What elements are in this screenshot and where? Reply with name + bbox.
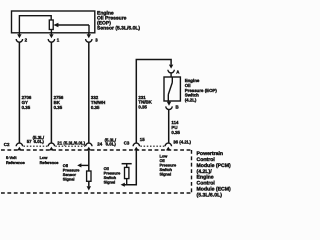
label 5-Volt Reference [6,155,26,165]
wire pin 15 into PCM with arrow [121,150,137,186]
connector pin 24 at PCM [86,143,92,150]
wire cup A to switch box [170,73,172,77]
EOP switch box outline [164,77,180,101]
wire pull-up resistor to signal run [126,179,128,185]
label Oil Pressure Switch Signal [104,166,121,184]
wire 114 PU [168,110,170,144]
connector pin 57 at PCM [16,143,22,150]
label Low Oil Pressure Switch Signal [160,153,177,176]
svg-text:C3: C3 [124,141,130,146]
label 114 PU 0.35 [171,120,180,135]
PCM dashed box top edge [1,149,192,151]
label 2706 GY 0.35 [22,95,32,110]
resistor pull-down in PCM [87,171,91,181]
label 231 TN/BK 0.35 [138,95,152,110]
svg-text:Reference: Reference [6,160,26,165]
svg-text:(4.2L): (4.2L) [185,97,197,102]
svg-text:0.35: 0.35 [138,105,147,110]
svg-text:Signal: Signal [160,172,172,177]
pressure switch symbol [168,77,172,101]
svg-text:15: 15 [140,137,145,142]
connector C3 dotted line [140,145,164,147]
label Oil Pressure Sensor Signal [63,163,80,181]
connector pin 2 of sensor [16,33,27,43]
svg-text:Reference: Reference [40,160,60,165]
svg-text:Signal: Signal [104,180,116,185]
wire 332 TN/WH [88,42,90,143]
svg-text:Sensor (5.3L/6.0L): Sensor (5.3L/6.0L) [97,26,140,32]
PCM dashed box right edge [191,150,193,193]
down arrow end of sensor signal branch [87,186,91,190]
svg-text:21 (5.3L/6.0L): 21 (5.3L/6.0L) [57,141,85,146]
svg-text:B: B [176,104,179,109]
label Engine Oil Pressure (EOP) Sensor (5.3L/6.0L) [97,10,140,31]
connector pin B of EOP switch [166,101,179,110]
wire 2706 GY [18,42,20,143]
connector pin 21 at PCM [48,143,54,150]
svg-text:6.0L): 6.0L) [106,142,117,147]
svg-text:57: 57 [27,139,32,144]
svg-text:0.35: 0.35 [171,130,180,135]
svg-text:24: 24 [97,142,102,147]
wire 2756 BK [50,42,52,143]
svg-text:6.0L): 6.0L) [34,139,45,144]
label 2756 BK 0.35 [54,95,64,110]
svg-text:Signal: Signal [63,176,75,181]
svg-text:36 (4.2L): 36 (4.2L) [173,140,191,145]
sensor box (EOP sensor outline) [12,11,95,33]
label Powertrain Control Module (PCM) (4.2L)/ Engine Control Module (ECM) (5.3L/6.0L) [197,151,232,199]
wire inner loop pin2 to resistor top [19,16,51,33]
wire pin1 stub resistor bottom to box bottom [50,30,52,34]
wiper arrow into resistor [53,23,89,28]
svg-text:0.35: 0.35 [22,105,31,110]
label 57 (5.3L/6.0L) [27,135,45,144]
svg-text:(5.3L/6.0L): (5.3L/6.0L) [197,193,223,199]
connector pin 36 at PCM [165,143,171,150]
wire 231 TN/BK from pin 15 up and over to switch [136,60,171,144]
label Low Reference [40,155,60,165]
wire wiper drop to pin 3 [88,25,90,33]
connector pin 3 of sensor [86,33,99,43]
label 332 TN/WH 0.35 [91,95,105,110]
PCM dashed box bottom edge [1,192,192,194]
resistor pull-up in PCM [125,167,129,178]
svg-text:0.35: 0.35 [91,105,100,110]
label 24 (5.3L/6.0L) [97,138,117,147]
svg-text:0.35: 0.35 [54,105,63,110]
connector pin 15 at PCM [133,143,139,150]
voltage supply bar in PCM [122,163,132,165]
connector pin A of EOP switch [168,65,180,75]
svg-text:C2: C2 [4,142,10,147]
connector pin 1 of sensor [48,33,60,43]
connector C2 dotted line [24,145,86,147]
wire pin 24 into PCM [88,150,90,186]
wire bar to pull-up resistor [126,164,128,168]
label Engine Oil Pressure (EOP) Switch (4.2L) [185,78,218,102]
arrow to oil pressure sensor signal [77,163,89,167]
resistor R sensing element [49,20,53,30]
